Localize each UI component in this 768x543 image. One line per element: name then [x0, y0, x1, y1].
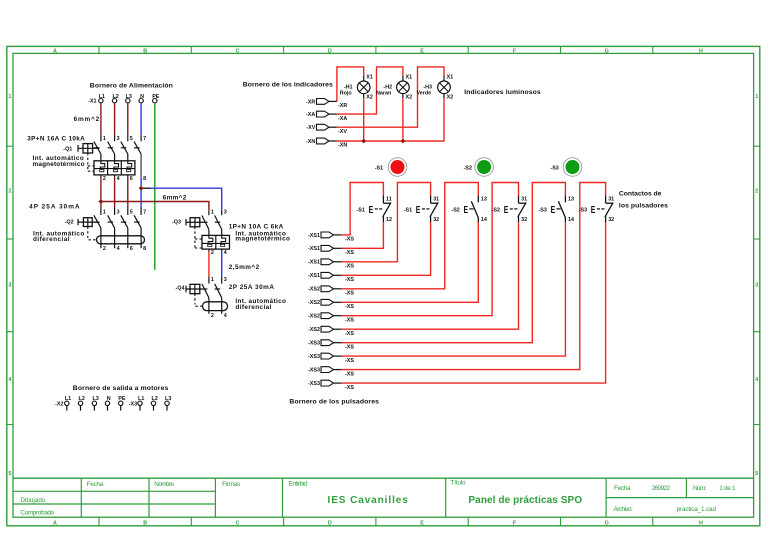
breaker -Q4 differential sensor: [203, 302, 228, 311]
wire N from -X1 to -Q1: [140, 103, 142, 134]
svg-text:-XS1: -XS1: [308, 273, 320, 279]
breaker -Q2 pole links to RCD sensor: [100, 228, 102, 248]
svg-text:32: 32: [433, 217, 439, 223]
svg-text:-XS: -XS: [345, 277, 354, 283]
pushbutton contact -S2 pins 31-32: [518, 196, 520, 204]
breaker -Q4 pole contacts: [208, 277, 210, 284]
breaker -Q1 neutral pole link: [140, 154, 142, 178]
svg-text:-S3: -S3: [550, 165, 558, 171]
svg-text:2P 25A 30mA: 2P 25A 30mA: [229, 284, 275, 291]
svg-text:E: E: [420, 48, 424, 54]
svg-text:4: 4: [224, 250, 227, 256]
wire lamp -H2 return: [402, 98, 404, 141]
svg-text:-XR: -XR: [338, 103, 347, 109]
wire contact -S3 pin 14 return: [564, 222, 566, 356]
wire -XS3 row 11: [341, 369, 580, 371]
svg-text:E: E: [551, 205, 556, 216]
wire -XS3 row 9: [341, 342, 533, 344]
wire N branch to -Q3: [151, 188, 222, 210]
svg-text:4: 4: [224, 313, 227, 319]
svg-text:Rojo: Rojo: [340, 90, 353, 96]
junction node XN at H2: [400, 139, 405, 144]
wire L1 from -X1 to -Q1: [100, 103, 102, 134]
wire lamp -H1 return: [363, 98, 365, 141]
breaker -Q3 operator box: [185, 219, 187, 226]
svg-text:H: H: [699, 48, 703, 54]
svg-text:E: E: [504, 205, 509, 216]
wire -XS2 row 8: [341, 328, 519, 330]
svg-text:31: 31: [521, 196, 527, 202]
junction node N branch: [141, 187, 150, 189]
svg-text:-XS: -XS: [345, 358, 354, 364]
pushbutton contact -S1 pins 31-32: [430, 196, 432, 204]
svg-text:1: 1: [211, 277, 214, 283]
svg-text:Contactos de: Contactos de: [619, 190, 662, 197]
svg-text:X2: X2: [406, 95, 413, 101]
svg-text:31: 31: [433, 196, 439, 202]
svg-text:magnetotérmico: magnetotérmico: [33, 161, 85, 168]
wire L2 from -X1 to -Q1: [114, 103, 116, 134]
svg-text:2: 2: [211, 313, 214, 319]
svg-text:E: E: [369, 205, 374, 216]
svg-text:1: 1: [8, 94, 11, 100]
wire -XA to lamp -H2: [337, 67, 403, 114]
svg-text:-XS2: -XS2: [308, 327, 320, 333]
wire -XS1 row 3: [341, 261, 398, 263]
wire loop -S1 contact 11-12 supply: [350, 183, 383, 235]
svg-text:-XS: -XS: [345, 331, 354, 337]
wire -XV to lamp -H3: [337, 67, 444, 127]
svg-text:-XN: -XN: [306, 139, 315, 145]
svg-text:-S3: -S3: [539, 207, 547, 213]
breaker -Q2 mechanism dashed link: [87, 227, 89, 239]
svg-text:-XS3: -XS3: [308, 341, 320, 347]
svg-text:H: H: [699, 520, 703, 526]
svg-text:1: 1: [103, 136, 106, 142]
wire N from -Q3 to -Q4: [221, 251, 223, 276]
wire -XR to lamp -H1: [337, 67, 364, 102]
wire -XS2 row 5: [341, 288, 445, 290]
svg-text:A: A: [53, 520, 57, 526]
wire loop -S2 contact 13-14 supply: [445, 183, 479, 289]
svg-text:X2: X2: [447, 95, 454, 101]
breaker -Q2 pole contacts: [100, 208, 102, 216]
svg-text:Panel de prácticas SPO: Panel de prácticas SPO: [468, 495, 582, 506]
breaker -Q2 operator box: [77, 219, 79, 225]
title block grid: [13, 477, 754, 479]
svg-text:13: 13: [568, 196, 574, 202]
svg-text:X1: X1: [366, 75, 373, 81]
wire -XS2 row 7: [341, 315, 492, 317]
svg-text:Fecha: Fecha: [614, 485, 631, 492]
svg-text:magnetotérmico: magnetotérmico: [235, 236, 290, 243]
svg-text:X1: X1: [447, 75, 454, 81]
breaker -Q3 pole contacts: [208, 210, 210, 215]
svg-text:5: 5: [8, 471, 11, 477]
svg-text:5: 5: [130, 136, 133, 142]
wire loop -S1 contact 31-32 supply: [397, 183, 430, 262]
lamp -H2 Naranja: [402, 76, 404, 81]
svg-text:-XS: -XS: [345, 291, 354, 297]
svg-text:Título: Título: [451, 479, 466, 486]
svg-text:E: E: [464, 205, 469, 216]
svg-text:3: 3: [117, 209, 120, 215]
wire -XN common return: [337, 98, 444, 141]
svg-text:5: 5: [130, 209, 133, 215]
svg-text:Archivo:: Archivo:: [614, 506, 634, 513]
svg-text:B: B: [143, 48, 147, 54]
svg-text:Indicadores luminosos: Indicadores luminosos: [464, 89, 541, 96]
svg-text:-XV: -XV: [338, 129, 347, 135]
svg-text:-S1: -S1: [375, 165, 383, 171]
frame row ticks left: [7, 145, 13, 147]
wire N from -Q1 to -Q2: [140, 178, 142, 208]
svg-text:-X2: -X2: [55, 401, 63, 407]
svg-text:G: G: [605, 48, 609, 54]
svg-text:-XS1: -XS1: [308, 246, 320, 252]
breaker -Q3 pole links into trip unit: [208, 229, 210, 235]
svg-text:Comprobado: Comprobado: [20, 509, 54, 516]
svg-text:4: 4: [8, 377, 11, 383]
junction node XN at H1: [361, 139, 366, 144]
svg-text:6mm^2: 6mm^2: [74, 115, 100, 123]
breaker -Q1 pole links into trip unit: [100, 154, 102, 161]
wire L from -Q3 to -Q4: [208, 251, 210, 276]
svg-text:32: 32: [608, 217, 614, 223]
svg-text:1: 1: [103, 209, 106, 215]
svg-text:1P+N 10A C 6kA: 1P+N 10A C 6kA: [229, 224, 284, 231]
svg-text:3: 3: [755, 283, 758, 289]
wire L1 from -Q1 to -Q2: [100, 178, 102, 208]
svg-text:-S2: -S2: [464, 165, 472, 171]
pushbutton contact -S1 pins 11-12: [382, 196, 384, 204]
wire -XS1 row 1: [341, 234, 350, 236]
svg-text:Dibujado: Dibujado: [20, 497, 45, 504]
breaker -Q1 mechanism dashed link: [87, 153, 89, 171]
wire contact -S1 pin 32 return: [430, 222, 432, 275]
svg-text:4: 4: [117, 176, 120, 182]
wire loop -S2 contact 31-32 supply: [492, 183, 518, 316]
svg-text:Bornero de los pulsadores: Bornero de los pulsadores: [289, 398, 379, 405]
svg-text:X2: X2: [366, 95, 373, 101]
svg-text:3P+N 16A C 10kA: 3P+N 16A C 10kA: [27, 135, 85, 142]
svg-text:-Q1: -Q1: [63, 146, 72, 152]
svg-text:2: 2: [211, 250, 214, 256]
breaker -Q3 mechanism dashed link: [194, 227, 196, 249]
svg-text:-XS: -XS: [345, 344, 354, 350]
svg-text:6mm^2: 6mm^2: [163, 194, 187, 202]
wire L3 from -Q1 to -Q2: [127, 178, 129, 208]
svg-text:E: E: [420, 520, 424, 526]
svg-text:-XS1: -XS1: [308, 260, 320, 266]
svg-text:Núm:: Núm:: [693, 485, 707, 492]
svg-text:8: 8: [143, 176, 146, 182]
wire L3 from -X1 to -Q1: [127, 103, 129, 134]
wire -XS3 row 12: [341, 382, 606, 384]
svg-text:3: 3: [117, 136, 120, 142]
svg-text:-Q2: -Q2: [65, 220, 74, 226]
svg-text:A: A: [53, 48, 57, 54]
svg-text:260922: 260922: [652, 485, 671, 492]
svg-text:6: 6: [130, 246, 133, 252]
svg-text:-XS: -XS: [345, 250, 354, 256]
frame column ticks bottom: [98, 517, 100, 526]
svg-text:-XS2: -XS2: [308, 300, 320, 306]
svg-text:C: C: [236, 520, 240, 526]
breaker -Q4 pole links to RCD sensor: [208, 298, 210, 314]
breaker -Q2 differential sensor: [97, 236, 145, 244]
svg-text:-XA: -XA: [306, 112, 315, 118]
svg-text:IES Cavanilles: IES Cavanilles: [328, 495, 409, 506]
svg-text:-XS2: -XS2: [308, 287, 320, 293]
lamp -H1 Rojo: [363, 76, 365, 81]
wire loop -S3 contact 13-14 supply: [532, 183, 565, 343]
svg-text:Bornero de los indicadores: Bornero de los indicadores: [243, 81, 333, 88]
svg-text:2: 2: [8, 188, 11, 194]
svg-text:-X3: -X3: [129, 401, 137, 407]
breaker -Q1 pole contacts: [100, 134, 102, 141]
svg-text:Bornero de salida a motores: Bornero de salida a motores: [73, 385, 169, 392]
svg-text:1 de 1: 1 de 1: [719, 485, 736, 492]
svg-text:2: 2: [103, 246, 106, 252]
svg-text:D: D: [328, 520, 332, 526]
svg-text:-XS: -XS: [345, 304, 354, 310]
svg-text:-XS1: -XS1: [308, 233, 320, 239]
svg-text:Verde: Verde: [417, 90, 432, 96]
svg-text:B: B: [143, 520, 147, 526]
svg-text:-XR: -XR: [306, 99, 315, 105]
svg-text:6: 6: [130, 176, 133, 182]
svg-text:14: 14: [568, 217, 574, 223]
svg-text:8: 8: [143, 246, 146, 252]
svg-text:-S3: -S3: [579, 207, 587, 213]
svg-text:-XS3: -XS3: [308, 381, 320, 387]
svg-text:E: E: [591, 205, 596, 216]
svg-text:Firmas: Firmas: [222, 481, 240, 488]
svg-text:-XS: -XS: [345, 385, 354, 391]
svg-text:-S2: -S2: [492, 207, 500, 213]
svg-text:Bornero de Alimentación: Bornero de Alimentación: [90, 83, 173, 90]
wire PE from -X1: [154, 103, 156, 270]
svg-text:2,5mm^2: 2,5mm^2: [229, 263, 260, 271]
svg-text:13: 13: [481, 196, 487, 202]
svg-text:31: 31: [608, 196, 614, 202]
svg-text:11: 11: [386, 196, 392, 202]
svg-text:E: E: [416, 205, 421, 216]
svg-text:7: 7: [143, 209, 146, 215]
svg-text:diferencial: diferencial: [235, 304, 271, 311]
breaker -Q3 trip unit boxes: [202, 235, 230, 249]
svg-text:2: 2: [755, 188, 758, 194]
svg-text:-Q3: -Q3: [172, 220, 181, 226]
svg-text:-XS3: -XS3: [308, 354, 320, 360]
frame row ticks right: [754, 145, 760, 147]
svg-text:-XS: -XS: [345, 237, 354, 243]
lamp -H3 Verde: [443, 76, 445, 81]
svg-text:Entidad: Entidad: [289, 480, 308, 487]
svg-text:3: 3: [224, 210, 227, 216]
svg-text:7: 7: [143, 136, 146, 142]
wire contact -S2 pin 14 return: [477, 222, 479, 302]
svg-text:-S2: -S2: [451, 207, 459, 213]
svg-text:-XA: -XA: [338, 116, 347, 122]
frame column ticks top: [98, 46, 100, 53]
svg-text:1: 1: [211, 210, 214, 216]
wire contact -S3 pin 32 return: [605, 222, 607, 383]
junction node L1 branch: [98, 199, 103, 204]
svg-text:4: 4: [117, 246, 120, 252]
svg-text:-XV: -XV: [306, 125, 315, 131]
svg-text:Naran: Naran: [376, 90, 391, 96]
svg-text:-S1: -S1: [404, 207, 412, 213]
svg-text:2: 2: [103, 176, 106, 182]
wire contact -S2 pin 32 return: [518, 222, 520, 329]
svg-text:Fecha: Fecha: [87, 481, 104, 488]
svg-text:C: C: [236, 48, 240, 54]
breaker -Q4 operator box: [185, 286, 187, 293]
pushbutton contact -S3 pins 13-14: [564, 196, 566, 203]
svg-text:3: 3: [224, 277, 227, 283]
pushbutton contact -S3 pins 31-32: [605, 196, 607, 204]
svg-text:Nombre: Nombre: [154, 481, 174, 488]
svg-text:14: 14: [481, 217, 487, 223]
svg-text:4: 4: [755, 377, 758, 383]
wire -XS1 row 2: [341, 247, 384, 249]
svg-text:-XS: -XS: [345, 317, 354, 323]
svg-text:-XS2: -XS2: [308, 314, 320, 320]
svg-text:-X1: -X1: [88, 99, 96, 105]
breaker -Q1 trip unit boxes: [94, 161, 135, 175]
pushbutton contact -S2 pins 13-14: [477, 196, 479, 203]
svg-text:4P 25A 30mA: 4P 25A 30mA: [29, 203, 80, 210]
svg-text:32: 32: [521, 217, 527, 223]
svg-text:-S1: -S1: [357, 207, 365, 213]
wire -XS2 row 6: [341, 301, 479, 303]
svg-text:G: G: [605, 520, 609, 526]
svg-text:-Q4: -Q4: [176, 286, 185, 292]
svg-text:X1: X1: [406, 75, 413, 81]
svg-text:3: 3: [8, 283, 11, 289]
wire -XS1 row 4: [341, 274, 431, 276]
wire 6mm2 branch to -Q3: [101, 202, 209, 211]
svg-text:-XN: -XN: [338, 143, 347, 149]
svg-text:12: 12: [386, 217, 392, 223]
breaker -Q1 operator box: [77, 145, 79, 152]
svg-text:-XS: -XS: [345, 371, 354, 377]
svg-text:practica_1.cad: practica_1.cad: [677, 506, 717, 513]
svg-text:D: D: [328, 48, 332, 54]
breaker -Q4 mechanism dashed link: [194, 294, 196, 305]
wire contact -S1 pin 12 return: [382, 222, 384, 248]
svg-text:5: 5: [755, 471, 758, 477]
svg-text:-XS: -XS: [345, 264, 354, 270]
wire loop -S3 contact 31-32 supply: [580, 183, 606, 370]
wire L2 from -Q1 to -Q2: [114, 178, 116, 208]
svg-text:diferencial: diferencial: [33, 236, 70, 243]
svg-text:los pulsadores: los pulsadores: [619, 203, 668, 210]
svg-text:1: 1: [755, 94, 758, 100]
wire -XS3 row 10: [341, 355, 566, 357]
svg-text:-XS3: -XS3: [308, 368, 320, 374]
